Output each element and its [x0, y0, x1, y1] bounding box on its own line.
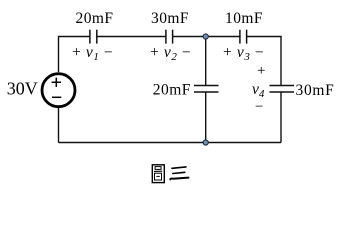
wire middle branch upper [205, 37, 207, 86]
node junction dot bottom [203, 140, 208, 145]
wire left rail below source [58, 108, 60, 143]
voltage source minus [52, 96, 61, 98]
svg-text:+: + [257, 63, 265, 79]
svg-text:v4: v4 [252, 81, 265, 100]
caption 圖 (figure) glyph [152, 165, 164, 183]
capacitor C1 20mF plates [90, 30, 97, 44]
svg-text:30mF: 30mF [296, 82, 335, 99]
wire top between C1 and C2 [97, 36, 166, 38]
voltage source 30V circle [42, 74, 75, 107]
voltage source plus [52, 78, 61, 87]
wire top-right segment [247, 37, 281, 86]
caption 三 (three) glyph [170, 167, 188, 179]
wire middle branch lower [205, 92, 207, 143]
node junction dot top [203, 34, 208, 39]
svg-text:+ v2 −: + v2 − [150, 44, 191, 63]
svg-text:20mF: 20mF [153, 82, 191, 99]
svg-text:30mF: 30mF [151, 10, 189, 27]
svg-text:−: − [255, 99, 263, 115]
wire top between C2 and C3 [173, 36, 240, 38]
wire bottom [59, 142, 282, 144]
wire right rail lower [280, 92, 282, 143]
capacitor C2 30mF plates [166, 30, 173, 44]
svg-text:10mF: 10mF [225, 10, 263, 27]
wire top-left segment [59, 37, 90, 73]
svg-text:+ v3 −: + v3 − [223, 44, 264, 63]
capacitor C5 30mF (right vertical) plates [270, 86, 295, 93]
capacitor C3 10mF plates [240, 30, 247, 44]
capacitor C4 20mF (middle vertical) plates [194, 86, 219, 93]
svg-text:+ v1 −: + v1 − [72, 44, 113, 63]
svg-text:20mF: 20mF [76, 10, 114, 27]
svg-text:30V: 30V [7, 79, 38, 99]
